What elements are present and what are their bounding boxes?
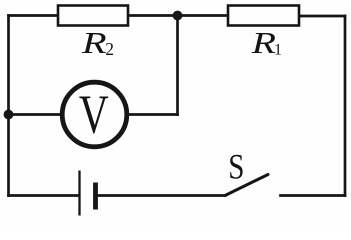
resistor R2 (58, 6, 128, 26)
switch S blade (225, 175, 268, 196)
wire: R2 right side to R1 left side (through node) (128, 14, 228, 17)
battery cell: long thin plate (positive) (78, 171, 80, 216)
wire: middle vertical from top node down to voltmeter branch (176, 16, 179, 115)
wire: switch right contact to right rail (281, 194, 346, 197)
resistor R1 (228, 6, 299, 26)
svg-text:1: 1 (274, 42, 282, 59)
voltmeter V (meter circle) (62, 82, 127, 147)
svg-text:R: R (251, 25, 277, 60)
wire: left vertical rail (7, 16, 10, 196)
wire: bottom-left from left rail to battery (9, 194, 79, 197)
wire: voltmeter to middle vertical (127, 113, 178, 116)
svg-text:2: 2 (105, 39, 114, 59)
wire: left node to voltmeter (9, 113, 64, 116)
node A: junction dot top middle (173, 11, 183, 21)
node B: junction dot left rail (4, 110, 14, 120)
wire: R1 right side to top-right corner (299, 15, 345, 18)
svg-text:S: S (228, 147, 244, 187)
battery cell: short thick plate (negative) (93, 183, 98, 210)
wire: right vertical rail (344, 16, 347, 196)
wire: battery to switch contact (97, 194, 226, 197)
svg-text:R: R (81, 25, 107, 59)
svg-text:V: V (79, 84, 109, 145)
wire: top-left horizontal from left rail to R2 (9, 14, 59, 17)
